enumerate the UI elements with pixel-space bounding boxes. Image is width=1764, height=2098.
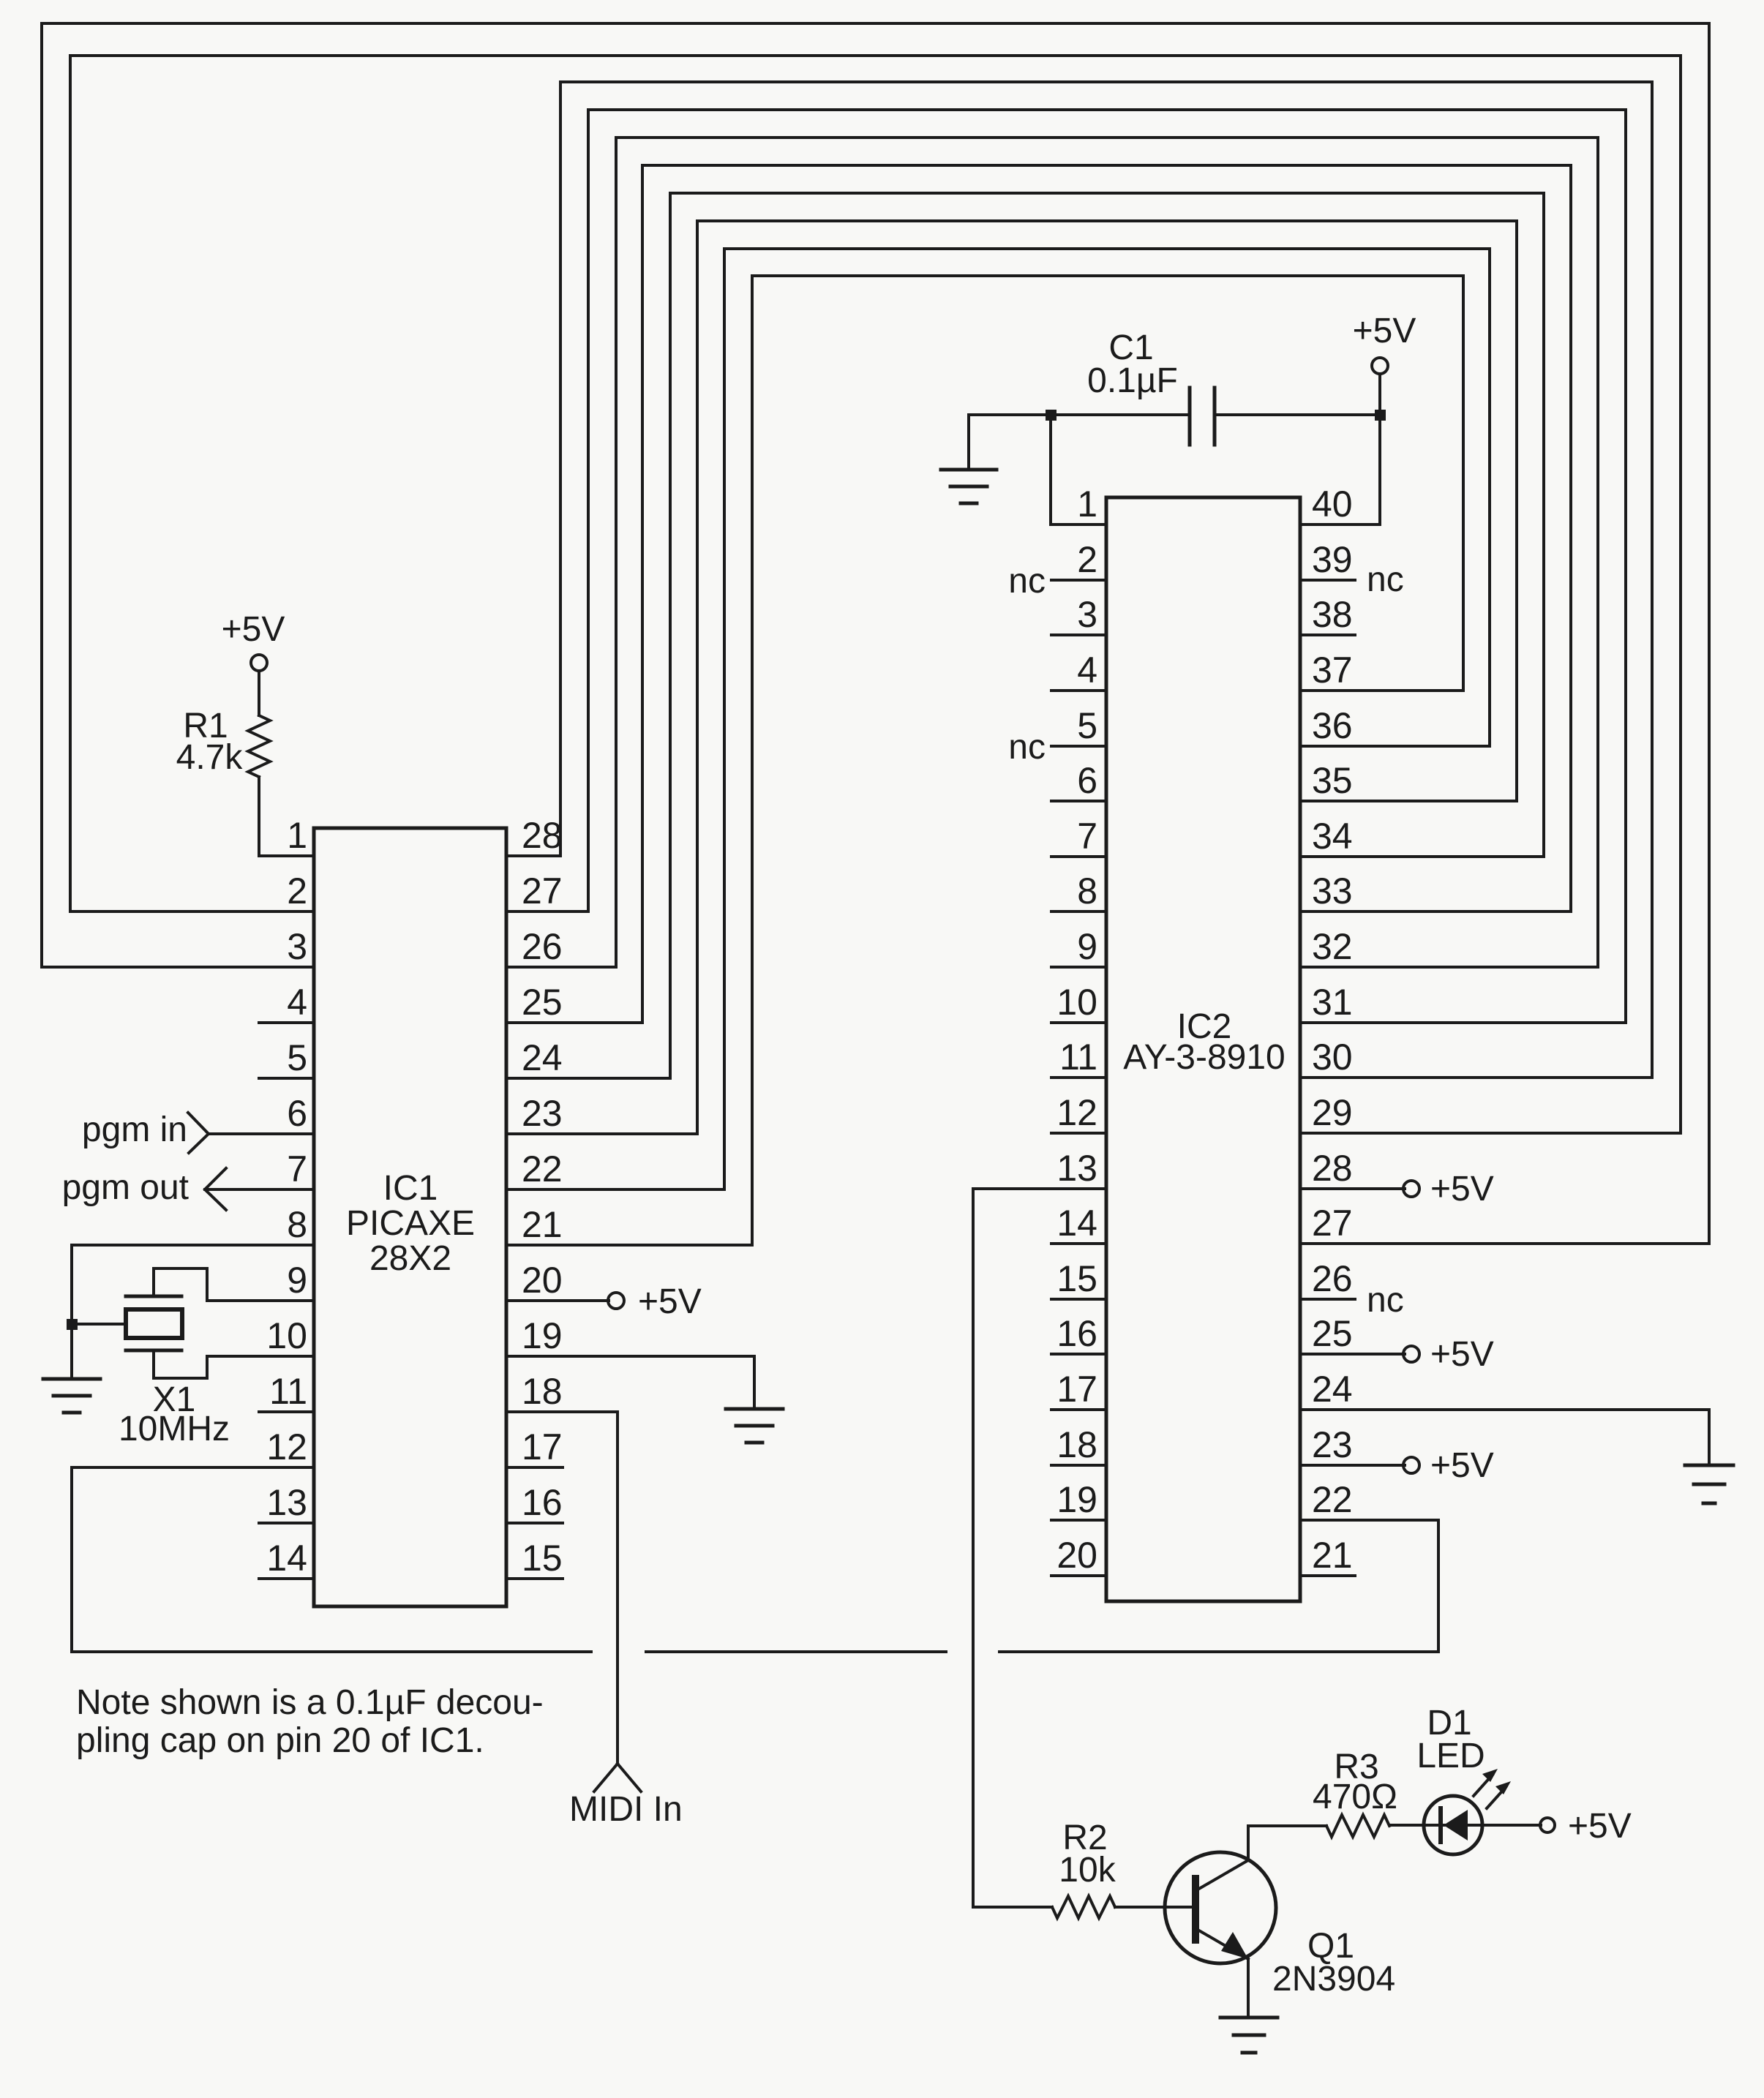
svg-text:32: 32 bbox=[1312, 926, 1353, 967]
svg-text:22: 22 bbox=[522, 1148, 563, 1189]
svg-text:4.7k: 4.7k bbox=[176, 738, 244, 777]
svg-text:+5V: +5V bbox=[222, 610, 285, 649]
svg-text:13: 13 bbox=[266, 1482, 307, 1523]
svg-text:15: 15 bbox=[1056, 1258, 1097, 1299]
svg-text:29: 29 bbox=[1312, 1092, 1353, 1133]
svg-text:AY-3-8910: AY-3-8910 bbox=[1123, 1038, 1286, 1077]
svg-text:1: 1 bbox=[1077, 484, 1097, 524]
svg-text:10: 10 bbox=[1056, 982, 1097, 1023]
svg-text:5: 5 bbox=[287, 1037, 307, 1078]
svg-text:470Ω: 470Ω bbox=[1313, 1778, 1397, 1816]
svg-text:17: 17 bbox=[1056, 1369, 1097, 1410]
svg-text:10MHz: 10MHz bbox=[119, 1410, 230, 1448]
svg-text:21: 21 bbox=[1312, 1535, 1353, 1576]
svg-text:IC1: IC1 bbox=[383, 1169, 438, 1208]
svg-text:14: 14 bbox=[266, 1538, 307, 1579]
svg-text:6: 6 bbox=[287, 1093, 307, 1134]
svg-text:3: 3 bbox=[1077, 594, 1097, 635]
svg-text:+5V: +5V bbox=[1430, 1446, 1494, 1485]
svg-text:18: 18 bbox=[1056, 1424, 1097, 1465]
svg-text:9: 9 bbox=[1077, 926, 1097, 967]
svg-text:pgm out: pgm out bbox=[62, 1168, 189, 1207]
svg-text:33: 33 bbox=[1312, 871, 1353, 911]
svg-text:4: 4 bbox=[1077, 650, 1097, 691]
svg-text:16: 16 bbox=[1056, 1313, 1097, 1354]
svg-text:19: 19 bbox=[522, 1315, 563, 1356]
svg-text:38: 38 bbox=[1312, 594, 1353, 635]
svg-text:35: 35 bbox=[1312, 760, 1353, 801]
svg-text:25: 25 bbox=[1312, 1313, 1353, 1354]
svg-text:2N3904: 2N3904 bbox=[1272, 1960, 1395, 1999]
svg-text:26: 26 bbox=[522, 926, 563, 967]
svg-text:25: 25 bbox=[522, 982, 563, 1023]
svg-text:30: 30 bbox=[1312, 1037, 1353, 1078]
svg-text:4: 4 bbox=[287, 982, 307, 1023]
svg-text:pgm in: pgm in bbox=[82, 1110, 187, 1149]
svg-text:2: 2 bbox=[1077, 539, 1097, 580]
svg-text:11: 11 bbox=[1059, 1037, 1097, 1078]
svg-text:+5V: +5V bbox=[1430, 1170, 1494, 1208]
svg-text:5: 5 bbox=[1077, 705, 1097, 746]
svg-text:34: 34 bbox=[1312, 816, 1353, 857]
svg-text:0.1µF: 0.1µF bbox=[1087, 361, 1178, 400]
svg-text:21: 21 bbox=[522, 1204, 563, 1245]
svg-text:7: 7 bbox=[1077, 816, 1097, 857]
svg-text:12: 12 bbox=[1056, 1092, 1097, 1133]
svg-text:28X2: 28X2 bbox=[369, 1239, 451, 1278]
svg-text:8: 8 bbox=[1077, 871, 1097, 911]
svg-text:23: 23 bbox=[522, 1093, 563, 1134]
svg-text:23: 23 bbox=[1312, 1424, 1353, 1465]
svg-text:15: 15 bbox=[522, 1538, 563, 1579]
svg-text:31: 31 bbox=[1312, 982, 1353, 1023]
svg-text:39: 39 bbox=[1312, 539, 1353, 580]
svg-text:nc: nc bbox=[1367, 560, 1404, 599]
svg-text:+5V: +5V bbox=[638, 1282, 702, 1321]
svg-text:PICAXE: PICAXE bbox=[346, 1204, 475, 1243]
svg-text:LED: LED bbox=[1416, 1737, 1485, 1775]
svg-text:40: 40 bbox=[1312, 484, 1353, 524]
svg-text:7: 7 bbox=[287, 1148, 307, 1189]
svg-text:28: 28 bbox=[522, 815, 563, 856]
svg-text:17: 17 bbox=[522, 1426, 563, 1467]
svg-text:13: 13 bbox=[1056, 1148, 1097, 1189]
svg-text:28: 28 bbox=[1312, 1148, 1353, 1189]
svg-text:12: 12 bbox=[266, 1426, 307, 1467]
svg-text:8: 8 bbox=[287, 1204, 307, 1245]
svg-text:36: 36 bbox=[1312, 705, 1353, 746]
svg-text:20: 20 bbox=[1056, 1535, 1097, 1576]
svg-text:nc: nc bbox=[1008, 562, 1046, 601]
svg-text:6: 6 bbox=[1077, 760, 1097, 801]
svg-text:27: 27 bbox=[522, 871, 563, 911]
svg-text:9: 9 bbox=[287, 1260, 307, 1301]
svg-text:pling cap on pin 20 of IC1.: pling cap on pin 20 of IC1. bbox=[76, 1721, 484, 1760]
svg-text:+5V: +5V bbox=[1568, 1807, 1632, 1846]
svg-text:+5V: +5V bbox=[1353, 312, 1416, 350]
svg-text:2: 2 bbox=[287, 871, 307, 911]
svg-text:16: 16 bbox=[522, 1482, 563, 1523]
svg-text:20: 20 bbox=[522, 1260, 563, 1301]
svg-text:nc: nc bbox=[1367, 1281, 1404, 1320]
svg-text:26: 26 bbox=[1312, 1258, 1353, 1299]
svg-text:1: 1 bbox=[287, 815, 307, 856]
svg-text:+5V: +5V bbox=[1430, 1335, 1494, 1374]
svg-text:24: 24 bbox=[1312, 1369, 1353, 1410]
svg-text:10: 10 bbox=[266, 1315, 307, 1356]
svg-text:37: 37 bbox=[1312, 650, 1353, 691]
svg-text:nc: nc bbox=[1008, 728, 1046, 767]
svg-text:3: 3 bbox=[287, 926, 307, 967]
svg-text:Note shown is a 0.1µF decou-: Note shown is a 0.1µF decou- bbox=[76, 1683, 544, 1722]
svg-text:10k: 10k bbox=[1059, 1851, 1116, 1890]
svg-text:MIDI In: MIDI In bbox=[569, 1790, 683, 1829]
svg-text:22: 22 bbox=[1312, 1479, 1353, 1520]
svg-text:19: 19 bbox=[1056, 1479, 1097, 1520]
svg-text:14: 14 bbox=[1056, 1203, 1097, 1244]
svg-text:11: 11 bbox=[269, 1371, 307, 1412]
svg-text:24: 24 bbox=[522, 1037, 563, 1078]
svg-text:18: 18 bbox=[522, 1371, 563, 1412]
svg-text:27: 27 bbox=[1312, 1203, 1353, 1244]
